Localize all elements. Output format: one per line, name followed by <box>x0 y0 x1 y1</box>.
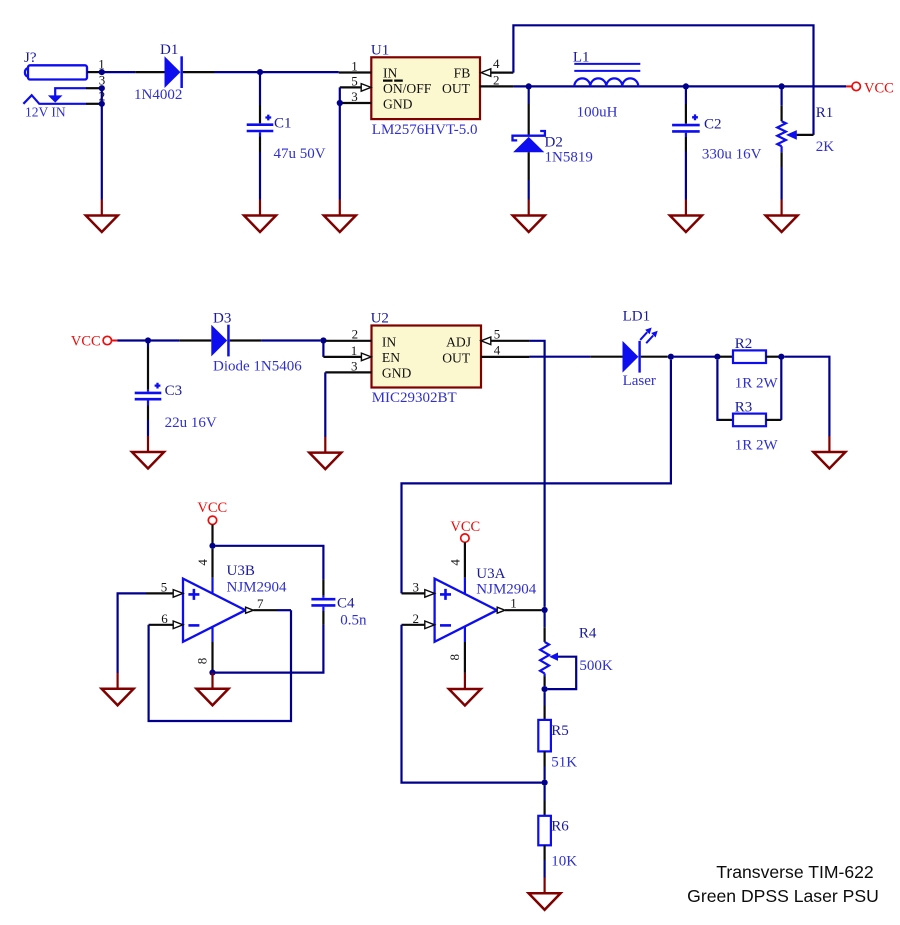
node LD1 cathode junction <box>668 354 674 360</box>
svg-text:Transverse TIM-622: Transverse TIM-622 <box>716 862 873 882</box>
svg-text:47u 50V: 47u 50V <box>274 146 326 162</box>
svg-text:4: 4 <box>195 559 210 566</box>
potentiometer R4 500K <box>540 613 613 686</box>
node D1/C1/U1 junction <box>257 69 263 75</box>
svg-text:IN: IN <box>382 334 397 349</box>
op IC U1 LM2576HVT-5.0 box <box>371 42 480 138</box>
ground (U3B pin5) <box>102 673 134 706</box>
svg-text:VCC: VCC <box>71 334 101 350</box>
J? sleeve contact graphic <box>23 95 86 119</box>
svg-text:5: 5 <box>161 579 168 594</box>
U1 pin 1 IN <box>339 58 372 73</box>
resistor R6 10K <box>538 801 577 870</box>
wire ADJ down to R4 chain <box>529 341 544 607</box>
U2 pin 1 EN <box>323 343 371 361</box>
U3A pin 1 output <box>497 596 541 614</box>
node R2/R3 left junction <box>714 354 720 360</box>
svg-text:22u 16V: 22u 16V <box>165 415 217 431</box>
ground (R6) <box>529 877 561 910</box>
wire R3 right branch <box>780 358 782 420</box>
node jack pin3 junction <box>99 85 105 91</box>
U1 pin 5 ON/OFF <box>340 73 371 91</box>
wire divider to R6 <box>543 786 545 801</box>
U3A pin 4 V+ lead <box>447 542 465 594</box>
capacitor C2 330u 16V <box>672 88 762 162</box>
svg-text:OUT: OUT <box>442 81 471 96</box>
wire U3B pin5 to ground <box>118 593 146 673</box>
svg-text:C3: C3 <box>165 383 183 399</box>
regulator U2 MIC29302BT box <box>371 311 481 406</box>
wire U3B feedback loop pin6 to pin7 <box>149 610 291 721</box>
svg-text:D3: D3 <box>213 311 231 327</box>
wire C3 to ground <box>147 420 149 437</box>
svg-text:2: 2 <box>412 611 419 626</box>
diode D3 1N5406 <box>151 311 302 375</box>
svg-text:1N5819: 1N5819 <box>545 150 593 166</box>
wire R2/R3 to ground <box>784 357 829 437</box>
svg-text:1R 2W: 1R 2W <box>735 376 779 392</box>
wire U1 pins 5,3 to ground <box>339 87 341 199</box>
title text <box>687 862 879 906</box>
VCC terminal (row 2 input) <box>71 334 117 350</box>
svg-text:100uH: 100uH <box>577 105 618 121</box>
svg-text:IN: IN <box>383 65 398 80</box>
wire U3B supply to C4 <box>216 546 324 580</box>
wire C1 node to U1 pin1 <box>263 71 339 73</box>
ground (C1) <box>244 200 276 233</box>
node C3/D3 junction <box>145 337 151 343</box>
svg-text:NJM2904: NJM2904 <box>227 580 288 596</box>
wire R4 to R5 <box>543 692 545 705</box>
resistor R5 51K <box>538 706 577 771</box>
wire LD1 feedback to U3A pin3 <box>402 360 671 594</box>
svg-text:GND: GND <box>383 96 413 111</box>
svg-text:NJM2904: NJM2904 <box>476 582 537 598</box>
laser diode LD1 <box>590 308 668 389</box>
U3B pin 4 V+ lead <box>195 525 213 594</box>
svg-text:Diode 1N5406: Diode 1N5406 <box>213 359 302 375</box>
svg-text:12V IN: 12V IN <box>25 105 66 120</box>
wire D1 to C1 node <box>214 71 257 73</box>
svg-text:VCC: VCC <box>864 81 894 97</box>
wire feedback to R1 wiper <box>797 134 814 136</box>
svg-text:R3: R3 <box>735 399 753 415</box>
svg-text:MIC29302BT: MIC29302BT <box>372 390 457 406</box>
inductor L1 100uH <box>573 50 640 121</box>
svg-text:8: 8 <box>447 654 462 661</box>
LD1 emission arrows <box>640 328 658 344</box>
svg-text:2K: 2K <box>816 139 835 155</box>
wire jack pin1 to D1 <box>104 71 135 73</box>
svg-text:U3B: U3B <box>227 563 255 579</box>
svg-text:D1: D1 <box>160 42 178 58</box>
ground (D2) <box>513 200 545 233</box>
svg-text:5: 5 <box>494 327 501 342</box>
node R5/R6 divider junction <box>542 780 548 786</box>
svg-text:3: 3 <box>351 89 358 104</box>
svg-text:4: 4 <box>447 559 462 566</box>
ground (U2) <box>309 437 341 470</box>
capacitor C4 0.5n <box>311 580 367 629</box>
svg-text:GND: GND <box>382 366 412 381</box>
svg-text:3: 3 <box>412 579 419 594</box>
wire C1 to ground <box>259 152 261 200</box>
U2 pin 2 IN <box>325 327 371 342</box>
diode D1 1N4002 <box>134 42 214 103</box>
node U2 input junction <box>320 337 326 343</box>
VCC terminal (U3B supply) <box>197 500 227 524</box>
wire U2 GND to ground <box>324 372 326 437</box>
svg-text:R4: R4 <box>579 626 597 642</box>
svg-text:C1: C1 <box>274 115 292 131</box>
resistor R2 1R 2W <box>719 336 779 392</box>
node U3A output / ADJ junction <box>542 607 548 613</box>
svg-text:VCC: VCC <box>450 519 480 535</box>
wire D2 to ground <box>528 180 530 200</box>
svg-text:VCC: VCC <box>197 500 227 516</box>
svg-text:LD1: LD1 <box>623 308 651 324</box>
node R1 junction <box>779 83 785 89</box>
svg-text:8: 8 <box>195 658 210 665</box>
svg-text:330u 16V: 330u 16V <box>702 146 762 162</box>
schottky diode D2 1N5819 <box>513 88 593 180</box>
svg-text:1: 1 <box>351 58 358 73</box>
J? pin 1 stub <box>87 57 105 72</box>
svg-text:10K: 10K <box>551 853 577 869</box>
svg-text:D2: D2 <box>545 134 563 150</box>
op-amp U3B NJM2904 <box>183 563 287 642</box>
ground (U3A) <box>449 673 481 706</box>
svg-text:LM2576HVT-5.0: LM2576HVT-5.0 <box>372 122 478 138</box>
svg-text:1: 1 <box>351 343 358 358</box>
svg-text:C2: C2 <box>704 117 722 133</box>
svg-text:7: 7 <box>257 596 264 611</box>
wire C2 to ground <box>685 152 687 200</box>
svg-text:R2: R2 <box>735 336 753 352</box>
U2 pin 5 ADJ <box>481 327 529 345</box>
wire U2 input node to EN <box>322 341 324 357</box>
svg-text:4: 4 <box>493 56 500 71</box>
J? switch contact graphic <box>48 88 86 102</box>
U3B pin 5 non-inverting input <box>146 579 183 597</box>
ground (input jack) <box>86 200 118 233</box>
wire D3 to U2 <box>261 339 320 341</box>
svg-text:51K: 51K <box>551 754 577 770</box>
U1 pin 4 FB <box>481 56 513 77</box>
U3B pin 6 inverting input <box>149 611 183 629</box>
node R4 bottom junction <box>542 686 548 692</box>
node jack pin2 junction <box>99 101 105 107</box>
VCC terminal (U3A supply) <box>450 519 480 543</box>
U3A pin 8 V- lead <box>447 626 465 673</box>
op-amp U3A NJM2904 <box>435 566 537 642</box>
wire U1 OUT to VCC rail <box>513 85 846 87</box>
U3B pin 7 output <box>246 596 291 613</box>
U1 pin 3 GND <box>340 89 372 104</box>
J? pin 3 stub <box>86 73 105 89</box>
svg-text:Laser: Laser <box>623 373 656 389</box>
ground (C2) <box>670 200 702 233</box>
svg-text:3: 3 <box>351 358 358 373</box>
J? pin 2 stub <box>86 88 105 103</box>
svg-text:2: 2 <box>493 73 500 88</box>
wire LD1 to R2 <box>674 356 715 358</box>
wire R6 to ground <box>543 860 545 878</box>
VCC terminal (output) <box>846 81 894 97</box>
node U3B supply / C4 junction <box>209 543 215 549</box>
svg-text:U1: U1 <box>371 42 389 58</box>
capacitor C3 22u 16V <box>135 343 217 431</box>
connector J? (12V DC jack) <box>24 50 87 80</box>
node jack pin1 junction <box>99 69 105 75</box>
capacitor C1 47u 50V <box>247 74 326 162</box>
svg-text:Green DPSS Laser PSU: Green DPSS Laser PSU <box>687 886 879 906</box>
wire VCC to C3 node <box>117 339 145 341</box>
U2 pin 3 GND <box>325 358 371 373</box>
wire R3 left branch <box>717 360 719 420</box>
wire FB feedback top loop <box>513 25 813 135</box>
R1 wiper arrow <box>786 130 797 140</box>
ground (R2/R3 return) <box>813 436 845 469</box>
svg-text:J?: J? <box>24 50 37 66</box>
U2 pin 4 OUT <box>481 343 529 358</box>
svg-text:OUT: OUT <box>442 350 471 365</box>
svg-text:R6: R6 <box>551 818 569 834</box>
svg-text:U3A: U3A <box>476 566 505 582</box>
svg-text:ADJ: ADJ <box>446 334 471 349</box>
svg-text:1: 1 <box>510 596 517 611</box>
potentiometer R1 2K <box>777 88 834 167</box>
node R2/R3 right junction <box>778 354 784 360</box>
svg-text:6: 6 <box>161 611 168 626</box>
wire R1 to ground <box>780 167 782 200</box>
svg-text:FB: FB <box>454 65 471 80</box>
ground (U3B pin8) <box>197 673 229 706</box>
svg-text:0.5n: 0.5n <box>340 613 367 629</box>
wire R5 to divider node <box>543 767 545 780</box>
svg-text:C4: C4 <box>337 596 355 612</box>
svg-text:2: 2 <box>352 327 359 342</box>
svg-text:1N4002: 1N4002 <box>134 87 182 103</box>
svg-text:R1: R1 <box>816 105 834 121</box>
U1 pin 2 OUT <box>480 73 514 88</box>
U3A pin 2 inverting input <box>402 611 435 629</box>
wire jack pins to ground <box>101 88 103 199</box>
svg-text:500K: 500K <box>579 658 613 674</box>
svg-text:ON/OFF: ON/OFF <box>383 81 432 96</box>
wire C4 to U3B pin8 node <box>216 625 324 673</box>
resistor R3 1R 2W <box>719 399 781 453</box>
svg-text:R5: R5 <box>551 723 569 739</box>
svg-text:U2: U2 <box>371 311 389 327</box>
node U3B pin8 / C4 return junction <box>209 670 215 676</box>
node switch/D2 junction <box>526 83 532 89</box>
svg-text:5: 5 <box>351 73 358 88</box>
U3A pin 3 non-inverting input <box>402 579 435 597</box>
node U1 pin3 junction <box>337 100 343 106</box>
wire U3A pin2 to divider <box>402 625 542 783</box>
ground (C3) <box>132 436 164 469</box>
ground (R1) <box>766 200 798 233</box>
svg-text:4: 4 <box>494 343 501 358</box>
ground (U1) <box>324 200 356 233</box>
wire U2 OUT to LD1 <box>529 356 590 358</box>
R4 wiper arrow and link <box>548 653 577 690</box>
node C2 junction <box>683 83 689 89</box>
U3B pin 8 V- lead <box>195 627 213 671</box>
svg-text:1R 2W: 1R 2W <box>735 438 779 454</box>
svg-text:EN: EN <box>382 350 400 365</box>
